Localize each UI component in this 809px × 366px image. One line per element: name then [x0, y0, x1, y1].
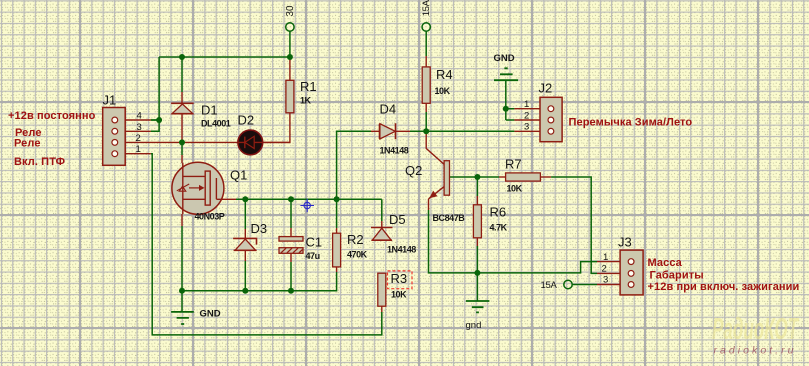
svg-text:R3: R3 — [391, 271, 408, 286]
svg-text:DL4001: DL4001 — [201, 119, 231, 129]
svg-text:D4: D4 — [380, 102, 397, 117]
svg-text:Q2: Q2 — [405, 163, 422, 178]
svg-text:4: 4 — [137, 111, 142, 122]
svg-text:Q1: Q1 — [230, 168, 247, 183]
terminal 15A bottom — [564, 280, 572, 288]
svg-text:2: 2 — [136, 133, 141, 144]
wire gate node down to D5 — [381, 199, 383, 221]
svg-text:1K: 1K — [300, 96, 312, 106]
ground symbol under Q1 — [181, 291, 183, 312]
svg-text:BC847B: BC847B — [433, 213, 466, 223]
svg-text:+12в постоянно: +12в постоянно — [8, 110, 96, 122]
svg-text:1N4148: 1N4148 — [380, 146, 409, 156]
resistor R2 — [333, 233, 341, 267]
svg-text:15A: 15A — [421, 0, 432, 16]
wire gate node up to D4 row — [337, 131, 371, 199]
ground symbol above J2 (inverted) — [494, 68, 518, 80]
wire terminal 15A to R4 — [425, 31, 427, 56]
svg-text:Перемычка Зима/Лето: Перемычка Зима/Лето — [569, 117, 693, 129]
wire D4 to R4 node to J2 pin3 — [396, 130, 411, 132]
indicator diode D2 — [238, 130, 263, 155]
svg-text:40N03P: 40N03P — [195, 212, 225, 222]
svg-text:3: 3 — [603, 275, 608, 286]
svg-text:3: 3 — [137, 122, 142, 133]
mosfet Q1 — [172, 162, 224, 214]
wire GND top to J2 pins 1-2 — [506, 80, 515, 120]
diode D5 — [371, 227, 393, 229]
connector J1 — [103, 108, 126, 166]
resistor R4 — [422, 67, 430, 103]
wire R2 top pin — [336, 228, 338, 233]
wire R7 right to J3 pin2 — [540, 176, 551, 178]
svg-text:2: 2 — [602, 264, 607, 275]
terminal 30 — [286, 23, 294, 31]
svg-text:R2: R2 — [347, 232, 364, 247]
svg-text:C1: C1 — [306, 235, 323, 250]
svg-text:D5: D5 — [389, 212, 406, 227]
wire R1 pins — [263, 57, 290, 142]
svg-text:J2: J2 — [539, 81, 553, 96]
J3 pin lines — [597, 262, 620, 285]
svg-text:Вкл. ПТФ: Вкл. ПТФ — [14, 156, 65, 168]
svg-text:Габариты: Габариты — [650, 270, 704, 282]
svg-text:3: 3 — [524, 122, 529, 133]
selection box around R3 label — [388, 271, 413, 289]
wire R6 top pin — [476, 177, 478, 196]
wire C1 pins — [290, 199, 292, 290]
wire Q1 gate row — [224, 198, 237, 200]
resistor R3 — [378, 273, 386, 306]
capacitor C1 — [279, 237, 303, 242]
svg-text:R4: R4 — [436, 67, 453, 82]
J2 pin lines — [514, 109, 540, 132]
wire R4 bottom pin — [425, 103, 427, 112]
svg-text:+12в при включ. зажигании: +12в при включ. зажигании — [648, 281, 800, 293]
svg-text:10K: 10K — [435, 86, 451, 96]
wire Q2 collector — [426, 131, 444, 164]
diode D1 — [171, 102, 194, 104]
wire J1 pin1 to bottom rail to R3 — [151, 154, 382, 335]
svg-text:J1: J1 — [103, 93, 117, 108]
svg-text:R1: R1 — [300, 79, 317, 94]
wire left drop to J1 pins 4/3 — [151, 57, 159, 131]
svg-text:470K: 470K — [347, 250, 368, 260]
svg-text:10K: 10K — [391, 290, 407, 300]
J1 pin lines — [125, 120, 151, 154]
wire Q2 base row — [450, 176, 500, 178]
svg-text:GND: GND — [200, 309, 221, 320]
wire ground rail — [182, 272, 337, 291]
wire D4 anode stub — [371, 130, 380, 132]
svg-text:GND: GND — [494, 53, 515, 64]
svg-text:D1: D1 — [201, 103, 218, 118]
wire R6 bottom to ground wire — [476, 238, 478, 246]
svg-text:D2: D2 — [238, 113, 255, 128]
svg-text:D3: D3 — [251, 221, 268, 236]
svg-text:30: 30 — [285, 5, 296, 17]
wire top rail +12V — [159, 56, 290, 58]
svg-text:J3: J3 — [618, 235, 632, 250]
wire Q2 emitter — [429, 187, 445, 210]
svg-text:1N4148: 1N4148 — [387, 245, 416, 255]
svg-text:4.7K: 4.7K — [490, 223, 508, 233]
wire terminal 30 to R1 — [289, 31, 291, 57]
transistor Q2 — [444, 161, 449, 196]
svg-text:Реле: Реле — [14, 138, 41, 150]
origin marker (blue) — [300, 199, 314, 213]
svg-text:Масса: Масса — [648, 257, 683, 269]
resistor R6 — [473, 205, 481, 238]
svg-text:15A: 15A — [541, 280, 558, 291]
svg-text:1: 1 — [524, 99, 529, 110]
wire D1 column — [181, 57, 183, 92]
wire emitter to J3 pin1 (Масса) — [429, 210, 598, 273]
wire Q1 source to rail — [181, 214, 183, 226]
svg-text:R6: R6 — [490, 205, 507, 220]
connector J3 — [620, 250, 643, 295]
svg-text:10K: 10K — [507, 184, 523, 194]
svg-text:R7: R7 — [505, 157, 522, 172]
svg-text:1: 1 — [603, 252, 608, 263]
resistor R7 — [506, 173, 541, 181]
zener D3 — [233, 238, 256, 244]
svg-text:47u: 47u — [306, 251, 320, 261]
resistor R1 — [286, 80, 294, 113]
diode D4 — [380, 124, 395, 139]
terminal 15A top — [422, 23, 430, 31]
wire J1 pin2 row — [125, 141, 182, 143]
wire terminal to J3 pin3 — [572, 284, 597, 286]
wire D3 column — [244, 199, 246, 290]
svg-text:2: 2 — [524, 110, 529, 121]
wire D2 pins — [182, 141, 290, 143]
ground symbol under R6 — [476, 273, 478, 301]
svg-text:РадиоКОТ: РадиоКОТ — [712, 311, 800, 346]
svg-text:gnd: gnd — [466, 320, 482, 331]
svg-text:1: 1 — [136, 144, 141, 155]
connector J2 — [540, 97, 562, 141]
Q2 emitter arrow — [429, 191, 437, 199]
wire Q1 drain from node — [181, 142, 183, 155]
svg-text:radiokot.ru: radiokot.ru — [714, 345, 794, 357]
